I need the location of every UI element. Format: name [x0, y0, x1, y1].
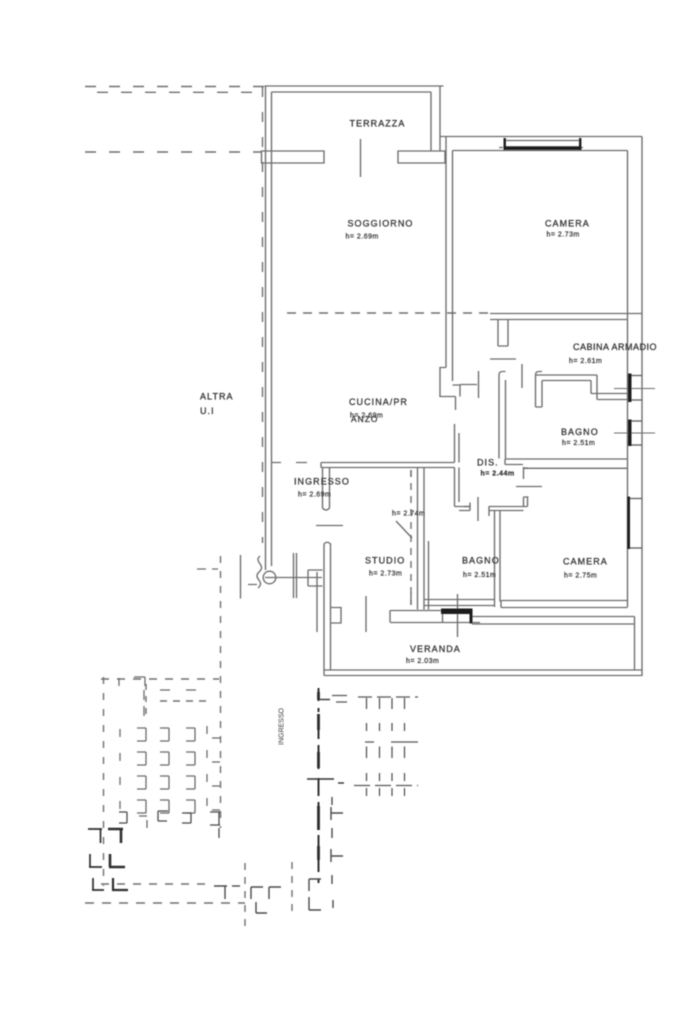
svg-text:h= 2.51m: h= 2.51m [463, 572, 496, 579]
dashed vertical entrance [220, 556, 222, 828]
bracket row2 [137, 752, 146, 765]
svg-text:CAMERA: CAMERA [563, 557, 608, 567]
facade wall block right [398, 151, 445, 163]
veranda parapet right upper [472, 616, 635, 618]
right wall inner face [627, 151, 629, 608]
bracket near x331 y807 [331, 807, 343, 820]
comb1 top [358, 696, 418, 698]
dashed vertical along left wall [262, 87, 264, 543]
window W5 dark bar [441, 609, 472, 615]
svg-text:TERRAZZA: TERRAZZA [350, 119, 406, 129]
corner pair 3 [92, 878, 104, 890]
window W4 dark bar [504, 146, 582, 150]
veranda left wall top cap [324, 542, 331, 553]
window W2 dark [628, 420, 632, 447]
top partial shapes [119, 677, 145, 716]
bagno/camera divider wall [495, 511, 501, 608]
crossing horizontal at 779 [307, 778, 334, 780]
svg-text:h= 2.69m: h= 2.69m [298, 492, 331, 499]
cucina door top line [460, 384, 477, 386]
stub below chimney [455, 397, 457, 411]
wall end ring [263, 571, 276, 584]
svg-text:STUDIO: STUDIO [365, 556, 405, 566]
right col mixed [207, 726, 220, 810]
camera inf door line [516, 486, 542, 488]
svg-text:SOGGIORNO: SOGGIORNO [348, 219, 414, 229]
bracket row4 [137, 800, 146, 813]
window W4 frame [499, 141, 583, 148]
cabina armadio right leg [591, 375, 597, 400]
bagno sup door tick [521, 364, 523, 388]
corner glyphs right cluster [214, 886, 227, 899]
svg-text:h= 2.73m: h= 2.73m [369, 571, 402, 578]
svg-text:BAGNO: BAGNO [462, 556, 500, 566]
svg-text:h= 2.74m: h= 2.74m [392, 511, 425, 518]
block left dashed vertical [103, 677, 105, 886]
bagno inf door jamb up [524, 497, 529, 507]
camera inf top wall [523, 467, 628, 469]
veranda tick small [410, 593, 412, 604]
svg-text:BAGNO: BAGNO [561, 427, 599, 437]
entrance tick pair [294, 553, 297, 598]
bracket row1 [137, 728, 146, 741]
camera inf door tick [524, 467, 529, 479]
svg-text:h= 2.73m: h= 2.73m [547, 232, 580, 239]
small connector at 699 [320, 699, 330, 701]
dis door tick [477, 497, 479, 521]
svg-text:h= 2.69m: h= 2.69m [346, 234, 379, 241]
wall stub below camera bottom [498, 320, 508, 347]
cucina door tick [478, 371, 480, 398]
veranda parapet lines left [390, 622, 480, 624]
terrazza top wall inner [272, 91, 432, 93]
top boundary camera section [440, 136, 642, 138]
svg-text:ANZO: ANZO [351, 414, 378, 424]
terrazza door tick [360, 139, 362, 177]
divider soggiorno/camera right line [452, 151, 454, 368]
entrance small dashes [197, 569, 257, 585]
bagno inf extra wall line [428, 541, 430, 610]
dashed vertical studio [410, 470, 412, 605]
window frames connectors [630, 376, 642, 549]
cabina armadio top bar [536, 375, 598, 381]
dashed line upper double row 1 [85, 86, 268, 88]
studio bottom wall band [390, 611, 441, 623]
svg-text:h= 2.61m: h= 2.61m [569, 358, 602, 365]
window W2 tick line [614, 432, 655, 434]
svg-text:INGRESSO: INGRESSO [279, 707, 286, 745]
entrance door frame block [308, 570, 323, 632]
veranda tick 1 [365, 596, 367, 632]
ingresso wall stub [323, 468, 330, 511]
comb bracket left [332, 696, 347, 703]
window W3 dark [627, 497, 630, 550]
bottom dashed vertical c1 [244, 863, 246, 930]
corridor dis left wall [455, 468, 471, 511]
ingresso opening dashes [272, 462, 308, 464]
cabina armadio bottom bar to wall [591, 394, 628, 400]
corner pair 2 [89, 854, 102, 867]
veranda right inner wall [634, 617, 636, 671]
ingresso door line [316, 525, 343, 527]
bracket near x331 y849 [331, 849, 343, 862]
vertical dashes x332 [331, 797, 333, 884]
window W1 tick line [614, 388, 655, 390]
svg-text:CABINA ARMADIO: CABINA ARMADIO [573, 342, 657, 352]
dashed line second horizontal [85, 151, 262, 153]
veranda left wall [324, 544, 331, 676]
dis door line [464, 506, 470, 508]
terrazza top wall outer [265, 85, 444, 87]
studio divider small tick [410, 470, 412, 477]
comb3 [365, 741, 418, 743]
svg-text:h= 2.75m: h= 2.75m [564, 573, 597, 580]
svg-text:CAMERA: CAMERA [545, 219, 590, 229]
block bottom dashed 1 [101, 883, 210, 885]
bagno sup bottom wall [505, 459, 628, 465]
right wall outer [641, 137, 643, 677]
cabina armadio left leg [536, 372, 543, 408]
facade wall block left (terrazza/soggiorno) [262, 151, 325, 163]
comb2 teeth [367, 723, 405, 731]
bagno inf bottom wall [424, 600, 495, 606]
block top dashed [101, 678, 219, 680]
bracket row3 [137, 776, 146, 789]
block inner vertical dash [145, 684, 147, 714]
studio divider wall [418, 468, 425, 610]
left wall outer [265, 86, 267, 571]
divider soggiorno/camera left line [445, 137, 447, 368]
window W1 dark [628, 374, 632, 403]
dashed line upper double row 2 [97, 91, 264, 93]
block inner horizontal dash [160, 700, 208, 702]
entrance horizontal line [265, 577, 322, 579]
veranda parapet right lower [472, 623, 635, 625]
svg-text:h= 2.03m: h= 2.03m [406, 658, 439, 665]
block bottom dashed 2 [85, 902, 245, 904]
svg-text:U.I: U.I [200, 406, 215, 416]
veranda bottom wall [324, 670, 642, 676]
ingresso top wall [321, 463, 455, 468]
studio door swing [396, 521, 412, 538]
bottom dashed vertical c2 [291, 862, 293, 915]
svg-text:h= 2.51m: h= 2.51m [562, 440, 595, 447]
camera inf bottom wall [501, 601, 628, 608]
bagno inf top wall [489, 507, 528, 517]
terrazza right wall inner [430, 92, 432, 151]
svg-text:h= 2.44m: h= 2.44m [481, 471, 515, 478]
svg-text:DIS.: DIS. [477, 458, 499, 468]
camera top inner wall [453, 150, 628, 152]
left wall inner [271, 92, 273, 566]
svg-text:CUCINA/PR: CUCINA/PR [349, 397, 408, 407]
svg-text:INGRESSO: INGRESSO [294, 477, 350, 487]
wall cucina/dis upper [455, 424, 460, 463]
camera bottom wall (upper camera) [490, 314, 642, 320]
left col ticks [119, 729, 121, 809]
veranda bump rect [331, 608, 342, 624]
svg-text:ALTRA: ALTRA [200, 392, 234, 402]
corner pair 1 [88, 829, 102, 843]
veranda window W5 frame [443, 609, 472, 622]
messy row 5 [119, 812, 127, 823]
chimney notch cucina [440, 368, 460, 397]
bagno sup left wall [499, 372, 506, 459]
terrazza right wall outer [439, 86, 441, 152]
break squiggle [257, 556, 262, 588]
entrance left solid tick [240, 555, 242, 599]
comb4 [367, 773, 405, 781]
cucina door line [490, 358, 516, 360]
veranda tick 2 (window) [457, 594, 459, 637]
svg-text:VERANDA: VERANDA [410, 644, 461, 654]
dashed line through soggiorno/cucina [287, 312, 489, 314]
